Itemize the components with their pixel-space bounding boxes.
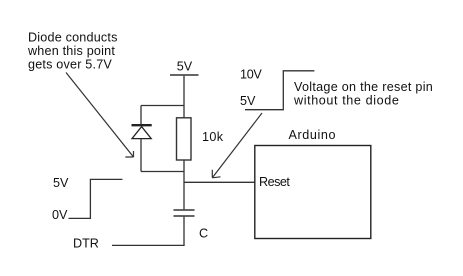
wire rail to resistor — [183, 76, 185, 118]
wire capacitor to DTR — [183, 217, 185, 246]
5V supply rail — [170, 74, 199, 76]
wire DTR — [112, 244, 185, 246]
svg-text:without the diode: without the diode — [293, 93, 399, 107]
svg-text:Reset: Reset — [259, 175, 290, 189]
wire diode top lead — [140, 106, 142, 125]
annotation text: Voltage on the reset pin without the diode — [293, 80, 433, 108]
svg-text:DTR: DTR — [73, 236, 99, 250]
svg-text:10k: 10k — [202, 130, 224, 144]
wire node to Reset pin — [184, 181, 255, 183]
svg-text:Diode conducts: Diode conducts — [28, 31, 118, 45]
wire resistor to node — [183, 160, 185, 209]
wire diode bottom lead — [140, 139, 142, 172]
svg-text:when this point: when this point — [27, 44, 115, 58]
svg-text:10V: 10V — [240, 68, 262, 82]
svg-text:0V: 0V — [52, 208, 68, 222]
Arduino box U1 — [255, 146, 371, 239]
svg-text:5V: 5V — [177, 59, 193, 73]
wire diode branch top — [141, 105, 184, 107]
resistor R1 — [177, 118, 192, 160]
reset-pin waveform step — [245, 71, 314, 110]
svg-text:5V: 5V — [240, 94, 256, 108]
svg-text:Voltage on the reset pin: Voltage on the reset pin — [294, 80, 433, 94]
arrow from annotation to diode node — [66, 73, 134, 158]
svg-text:5V: 5V — [53, 176, 69, 190]
diode D1 cathode bar — [132, 124, 152, 126]
arrow from waveform to reset node — [212, 113, 262, 178]
annotation text: Diode conducts when this point gets over 5.7V — [27, 31, 118, 72]
svg-text:C: C — [199, 227, 208, 241]
svg-text:gets over 5.7V: gets over 5.7V — [28, 58, 112, 72]
capacitor C plates — [174, 210, 195, 216]
svg-text:Arduino: Arduino — [289, 128, 337, 142]
diode D1 triangle — [132, 127, 151, 139]
DTR waveform step — [69, 179, 123, 218]
wire diode branch bottom — [141, 171, 184, 173]
